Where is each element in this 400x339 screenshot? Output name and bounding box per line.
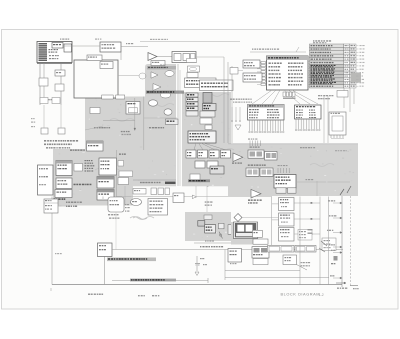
svg-text:BLOCK DIAGRAM: BLOCK DIAGRAM [281,291,321,296]
svg-text:1-2: 1-2 [319,293,324,297]
